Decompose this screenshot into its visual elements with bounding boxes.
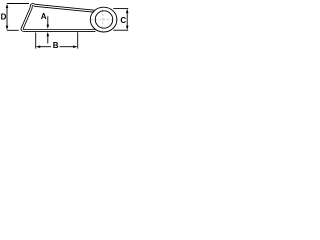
dimension B extension line right [77,32,79,48]
dimension D extension line top [7,3,29,5]
ring vertical centerline [102,10,104,31]
ring inner circle [95,11,112,28]
dimension B line with left arrow [40,46,51,48]
svg-text:B: B [53,41,59,50]
dimension B line right part with right arrow [60,46,74,48]
dimension D extension line bottom [7,29,19,31]
dimension D line with two arrows [6,6,8,29]
dimension C extension line top [113,8,128,10]
dimension A lower arrow (points up at rod bottom) [47,35,49,44]
svg-text:C: C [120,16,126,25]
ring horizontal centerline [91,19,118,21]
svg-text:A: A [41,12,47,21]
wire body of pin (double-line outline via black stroke with white core) [22,5,96,31]
ring outer circle [90,7,117,32]
dimension A upper arrow (points down at rod top) [47,16,49,26]
dimension C extension line bottom [113,29,128,31]
dimension B extension line left [35,33,37,49]
svg-text:D: D [1,12,7,21]
dimension C line with two arrows [126,11,128,29]
